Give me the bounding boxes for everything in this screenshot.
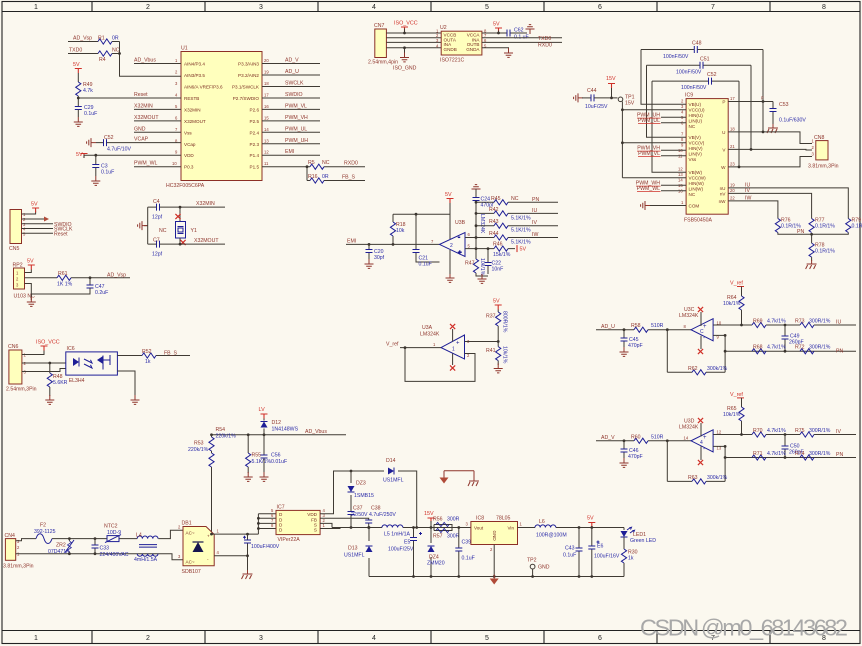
svg-text:3: 3: [178, 554, 181, 559]
svg-text:470pF: 470pF: [628, 454, 643, 460]
wire IC7 D pins bus: [258, 514, 276, 534]
svg-text:Green LED: Green LED: [630, 538, 656, 544]
svg-text:LIN(W): LIN(W): [689, 187, 704, 192]
svg-text:L6: L6: [539, 519, 545, 525]
svg-text:U3A: U3A: [422, 325, 433, 331]
svg-text:5.1K/1%: 5.1K/1%: [511, 228, 531, 234]
svg-text:ISO7221C: ISO7221C: [440, 58, 464, 64]
svg-text:AD_V: AD_V: [601, 435, 615, 441]
svg-text:FB_S: FB_S: [164, 351, 178, 357]
capacitor C48 bootstrap U: [641, 50, 763, 132]
svg-text:AD_Vbus: AD_Vbus: [305, 429, 327, 435]
svg-text:6: 6: [598, 635, 602, 642]
svg-text:30pf: 30pf: [374, 255, 385, 261]
svg-text:0.1uF/630V: 0.1uF/630V: [779, 118, 806, 124]
wire U1 pin14 PWM_UL: [262, 131, 320, 133]
svg-text:VCC(V): VCC(V): [689, 141, 705, 146]
svg-text:2.54mm,3Pin: 2.54mm,3Pin: [6, 387, 37, 393]
svg-text:12pf: 12pf: [152, 252, 163, 258]
svg-text:R57: R57: [433, 534, 443, 540]
op-amp U3B: [440, 233, 466, 257]
svg-text:4: 4: [372, 635, 376, 642]
svg-text:SWDIO: SWDIO: [285, 92, 303, 98]
electrolytic E5: [413, 528, 415, 577]
svg-text:7: 7: [681, 132, 684, 137]
svg-text:4.7k/1%: 4.7k/1%: [767, 319, 786, 325]
capacitor C51 bootstrap V: [647, 65, 752, 149]
svg-text:Y1: Y1: [191, 228, 197, 234]
svg-text:6: 6: [468, 232, 471, 237]
wire U2 pin7 TXD0: [482, 37, 562, 39]
svg-text:10k/1%: 10k/1%: [723, 301, 741, 307]
svg-text:-: -: [703, 336, 705, 342]
svg-text:5V: 5V: [445, 192, 452, 198]
svg-text:+: +: [703, 435, 707, 441]
svg-text:0.1R: 0.1R: [852, 224, 862, 230]
ground below C46: [620, 458, 629, 467]
svg-text:GNDA: GNDA: [466, 47, 480, 52]
svg-text:U1: U1: [181, 46, 188, 52]
resistor R63: [692, 479, 706, 484]
power ISO_VCC at CN7: [401, 27, 408, 32]
capacitor C20: [368, 244, 370, 260]
svg-text:+: +: [207, 534, 210, 539]
svg-text:AD_V: AD_V: [285, 58, 299, 64]
svg-text:R60: R60: [631, 434, 641, 440]
svg-text:R61: R61: [58, 271, 68, 277]
inductor L6: [535, 525, 556, 528]
svg-text:11: 11: [264, 161, 269, 166]
connector CN8: [816, 141, 828, 160]
resistor R73: [800, 322, 814, 327]
wire crystal left vertical: [144, 207, 148, 244]
svg-text:VDD: VDD: [184, 153, 194, 158]
svg-text:9: 9: [175, 150, 178, 155]
svg-text:US1MFL: US1MFL: [344, 553, 365, 559]
svg-text:10uF/25V: 10uF/25V: [585, 104, 608, 110]
wire U2 pin8 to C62: [482, 32, 527, 34]
svg-text:4: 4: [700, 440, 703, 446]
svg-text:R55: R55: [252, 453, 262, 459]
net AD_Vbus wire: [212, 434, 347, 436]
svg-text:AC~: AC~: [186, 531, 195, 536]
svg-text:1SMB15: 1SMB15: [354, 493, 374, 499]
svg-text:R41: R41: [486, 348, 496, 354]
resistor R72: [800, 349, 814, 354]
svg-text:5.1K/1%: 5.1K/1%: [252, 459, 272, 465]
capacitor C46: [623, 441, 625, 459]
resistor R76: [775, 219, 780, 233]
wire U3A pin3 to divider: [465, 341, 499, 343]
wire DC+ bus: [212, 533, 259, 535]
svg-text:+: +: [456, 341, 460, 347]
svg-text:P2.3: P2.3: [250, 142, 260, 147]
svg-text:C51: C51: [700, 56, 710, 62]
svg-text:AD_Vsp: AD_Vsp: [107, 272, 126, 278]
svg-text:7: 7: [175, 127, 178, 132]
capacitor C52 on VCap: [96, 142, 181, 144]
svg-text:IC7: IC7: [277, 504, 285, 510]
svg-text:C44: C44: [587, 88, 597, 94]
net IV line R43: [476, 225, 558, 227]
svg-text:X32MIN: X32MIN: [184, 107, 201, 112]
wire VDD to U1 pin9: [84, 155, 181, 164]
svg-text:W: W: [721, 165, 726, 170]
ground crystal sideways: [138, 221, 147, 230]
svg-text:Reset: Reset: [54, 231, 68, 237]
svg-text:U: U: [722, 130, 725, 135]
frame column ticks top: [92, 2, 770, 12]
red X marks on Y1: [175, 214, 180, 219]
resistor R79: [846, 219, 851, 233]
svg-text:5V: 5V: [73, 62, 80, 68]
svg-text:EL3H4: EL3H4: [69, 378, 85, 384]
wire crystal bottom X32MOUT: [148, 238, 225, 244]
frame bottom band line: [2, 630, 860, 632]
svg-text:nV: nV: [720, 191, 727, 196]
svg-text:NC: NC: [322, 160, 330, 166]
svg-text:NC: NC: [689, 192, 696, 197]
ground below R55: [244, 472, 253, 481]
svg-text:LM324K: LM324K: [679, 424, 699, 430]
svg-text:PWM_VL: PWM_VL: [285, 103, 307, 109]
svg-text:2: 2: [175, 70, 178, 75]
wire AD_Vsp: [68, 41, 120, 43]
svg-text:100uF/25V: 100uF/25V: [388, 547, 414, 553]
ground U2 GNDA: [504, 48, 513, 57]
svg-text:Vin: Vin: [507, 526, 514, 531]
power 5V for R49: [75, 69, 82, 74]
power 5V R37: [495, 305, 502, 310]
svg-text:R43: R43: [489, 219, 499, 225]
svg-text:3: 3: [175, 81, 178, 86]
svg-text:1: 1: [217, 529, 220, 534]
svg-text:AIN6/A VREF/P3.6: AIN6/A VREF/P3.6: [184, 85, 223, 90]
capacitor C50: [784, 435, 786, 458]
svg-text:17: 17: [730, 96, 735, 101]
svg-text:ZMM20: ZMM20: [427, 561, 445, 567]
svg-text:1: 1: [452, 347, 455, 353]
capacitor C38 FB: [320, 518, 369, 527]
wire U1 pin20 AD_V: [262, 63, 320, 65]
capacitor C39: [458, 528, 460, 577]
ground below C29: [74, 117, 83, 126]
svg-text:3: 3: [17, 539, 20, 544]
svg-text:PN: PN: [836, 349, 843, 355]
svg-text:3: 3: [259, 4, 263, 11]
svg-text:R16: R16: [308, 174, 318, 180]
svg-text:19: 19: [730, 182, 735, 187]
capacitor C21: [416, 214, 440, 262]
svg-text:PN: PN: [836, 452, 843, 458]
svg-text:P1.5: P1.5: [250, 165, 260, 170]
svg-text:S: S: [314, 528, 317, 533]
svg-text:-: -: [456, 353, 458, 359]
svg-text:14: 14: [264, 127, 269, 132]
svg-text:Vss: Vss: [689, 157, 697, 162]
ground below R41: [494, 364, 503, 373]
svg-text:R45: R45: [491, 196, 501, 202]
svg-text:R62: R62: [688, 366, 698, 372]
resistor R49: [77, 73, 79, 82]
svg-text:IW: IW: [532, 232, 538, 238]
svg-text:3: 3: [812, 152, 815, 157]
svg-text:E6: E6: [597, 544, 603, 550]
resistor R69: [752, 322, 766, 327]
wire nV to R77: [728, 193, 811, 218]
svg-text:COM: COM: [689, 204, 700, 209]
zener DZ4: [430, 528, 432, 577]
wire CN7 pin1: [386, 29, 441, 34]
wire U3C output line IU: [713, 324, 856, 326]
svg-text:R73: R73: [795, 319, 805, 325]
svg-text:X32MIN: X32MIN: [196, 201, 215, 207]
svg-text:18: 18: [730, 126, 735, 131]
wire CN7 pin4: [386, 48, 441, 54]
wire CN7 pin3: [386, 41, 441, 43]
ground pair bracket: [444, 471, 474, 477]
common mode choke L4: [137, 536, 158, 539]
svg-text:15V: 15V: [625, 100, 635, 106]
resistor R75: [800, 432, 814, 437]
capacitor C56: [263, 435, 265, 473]
svg-text:ISO_GND: ISO_GND: [393, 66, 417, 72]
crystal Y1: [176, 222, 186, 239]
red X marks U3A power pins: [452, 329, 454, 365]
svg-text:17: 17: [264, 93, 269, 98]
svg-text:100nF/50V: 100nF/50V: [681, 85, 707, 91]
svg-text:0R: 0R: [322, 174, 329, 180]
svg-text:0.2uF: 0.2uF: [95, 290, 108, 296]
svg-text:C52: C52: [104, 135, 114, 141]
svg-text:2: 2: [490, 547, 493, 552]
svg-text:10nF: 10nF: [492, 267, 504, 273]
wire U2 pin5 GNDA: [482, 48, 509, 50]
wire IC8 GND pin down: [493, 545, 495, 577]
svg-text:CSDN @m0_68143682: CSDN @m0_68143682: [640, 615, 848, 641]
thermistor NTC2: [107, 536, 119, 542]
optocoupler IC6: [66, 352, 118, 375]
svg-text:5: 5: [485, 635, 489, 642]
power 5V output: [588, 523, 595, 528]
svg-text:10D-9: 10D-9: [107, 530, 121, 536]
IPM IC9 FSB50450A: [686, 99, 728, 215]
svg-text:R53: R53: [194, 441, 204, 447]
svg-text:22: 22: [730, 195, 735, 200]
svg-text:X32MOUT: X32MOUT: [134, 115, 159, 121]
svg-text:C48: C48: [692, 41, 702, 47]
svg-text:2: 2: [146, 635, 150, 642]
svg-text:7: 7: [431, 239, 434, 244]
IC6 LED symbol: [73, 358, 79, 366]
svg-text:C39: C39: [462, 540, 472, 546]
svg-text:10k/1%: 10k/1%: [723, 412, 741, 418]
svg-text:12: 12: [717, 429, 722, 434]
wire IC6 out to R52: [117, 355, 190, 357]
capacitor C3: [92, 165, 99, 168]
svg-text:300R/1%: 300R/1%: [809, 428, 831, 434]
svg-text:4.7k/1%: 4.7k/1%: [767, 345, 786, 351]
svg-text:PWM_VL: PWM_VL: [638, 151, 660, 157]
svg-text:5.1K/1%: 5.1K/1%: [511, 215, 531, 221]
power 5V RP2: [28, 265, 35, 270]
svg-text:392-1125: 392-1125: [34, 529, 56, 535]
wire AC line top: [16, 530, 183, 541]
svg-text:VCAP: VCAP: [134, 137, 149, 143]
svg-text:HIN(W): HIN(W): [689, 181, 705, 186]
svg-text:C37: C37: [353, 506, 363, 512]
svg-text:R56: R56: [433, 517, 443, 523]
svg-text:5V: 5V: [493, 299, 500, 305]
fuse F2: [36, 534, 52, 544]
svg-text:100R@100M: 100R@100M: [536, 533, 567, 539]
svg-text:3: 3: [466, 522, 469, 527]
svg-text:PN: PN: [797, 229, 804, 235]
diode D14: [388, 468, 394, 475]
svg-text:Reset: Reset: [134, 92, 148, 98]
svg-text:300R: 300R: [447, 534, 460, 540]
resistor R61: [57, 275, 71, 280]
svg-text:-: -: [703, 447, 705, 453]
svg-text:10k/1%: 10k/1%: [502, 346, 508, 364]
svg-text:2: 2: [17, 545, 20, 550]
wire U3B pin5 R46: [465, 248, 515, 250]
svg-text:PWM_WL: PWM_WL: [134, 161, 157, 167]
svg-text:AIN3/P3.5: AIN3/P3.5: [184, 73, 205, 78]
svg-text:220k/1%: 220k/1%: [216, 434, 237, 440]
svg-text:P2.7/SWDIO: P2.7/SWDIO: [233, 96, 260, 101]
ground right of C62: [526, 25, 535, 34]
wire IC8 out to L6: [518, 527, 625, 529]
zener DZ3: [350, 471, 352, 512]
svg-text:16: 16: [264, 104, 269, 109]
svg-text:07D471K: 07D471K: [48, 549, 70, 555]
resistor R37: [497, 310, 499, 313]
svg-text:470pF: 470pF: [628, 343, 643, 349]
wire divider to DC bus: [211, 467, 213, 534]
wire CN5 pin1 to 5V: [22, 211, 36, 215]
svg-text:P3.3/AIN3: P3.3/AIN3: [238, 62, 259, 67]
ground column top of C24: [472, 185, 481, 194]
resistor R70: [752, 432, 766, 437]
ground below R78: [806, 260, 817, 269]
ground below R48: [45, 395, 54, 404]
wire PWM_WL to U1 pin10: [134, 166, 181, 168]
svg-text:5.6KR: 5.6KR: [53, 380, 68, 386]
wire crystal top X32MIN: [148, 207, 225, 221]
svg-text:CN8: CN8: [814, 135, 824, 141]
op-amp U3A: [441, 335, 465, 359]
svg-text:15V: 15V: [606, 76, 616, 82]
svg-text:20: 20: [264, 58, 269, 63]
svg-text:8: 8: [822, 4, 826, 11]
red X marks U3C power pins: [700, 312, 702, 349]
svg-text:R4: R4: [99, 57, 106, 63]
svg-text:LM324K: LM324K: [479, 214, 485, 234]
svg-text:5: 5: [468, 243, 471, 248]
svg-text:NC: NC: [689, 124, 696, 129]
wire U1 pin17 SWDIO: [262, 97, 320, 99]
svg-text:5V: 5V: [76, 152, 83, 158]
wire 15V to VCC(U): [622, 102, 686, 110]
svg-text:VCap: VCap: [184, 142, 196, 147]
svg-text:P2.4: P2.4: [250, 130, 260, 135]
electrolytic E6: [591, 528, 593, 577]
svg-text:0.1uF: 0.1uF: [462, 556, 475, 562]
svg-text:HIN(U): HIN(U): [689, 113, 704, 118]
inductor L5: [382, 525, 403, 528]
wire CN5 pin4 SWCLK: [22, 228, 54, 230]
svg-text:R54: R54: [216, 427, 226, 433]
net PWM_WH: [661, 184, 686, 186]
svg-text:4.7k: 4.7k: [83, 88, 93, 94]
svg-text:HIN(V): HIN(V): [689, 146, 704, 151]
resistor R62: [692, 370, 706, 375]
junction DB1 minus: [246, 554, 249, 557]
capacitor C62: [507, 30, 510, 37]
net PWM_WL: [661, 190, 686, 192]
svg-text:VCC(U): VCC(U): [689, 108, 706, 113]
svg-text:P: P: [761, 96, 764, 101]
bridge rectifier DB1: [183, 527, 214, 566]
svg-text:R1: R1: [98, 36, 105, 42]
svg-text:R74: R74: [795, 451, 805, 457]
svg-text:C38: C38: [371, 506, 381, 512]
frame column ticks bottom: [92, 631, 770, 644]
wire X32MIN to U1 pin5: [134, 108, 181, 110]
ground ISO_GND: [400, 53, 409, 62]
net EMI wire: [346, 243, 440, 245]
svg-text:GND: GND: [492, 531, 497, 542]
svg-text:14: 14: [684, 435, 689, 440]
ground below RP2: [27, 297, 36, 306]
svg-text:1N4148WS: 1N4148WS: [272, 427, 299, 433]
svg-text:DZ3: DZ3: [356, 481, 366, 487]
svg-text:AD_Vsp: AD_Vsp: [73, 36, 92, 42]
svg-text:D12: D12: [272, 420, 282, 426]
svg-text:nW: nW: [719, 199, 727, 204]
svg-text:P1.4: P1.4: [250, 153, 260, 158]
svg-text:LM324K: LM324K: [420, 332, 440, 338]
svg-text:300R/1%: 300R/1%: [809, 451, 831, 457]
svg-text:PN: PN: [532, 197, 539, 203]
power 5V at U2: [495, 28, 502, 33]
power 5V U3B: [447, 199, 454, 204]
op-amp U3C: [691, 319, 713, 341]
capacitor C29: [75, 107, 82, 110]
svg-text:AIN4/P3.4: AIN4/P3.4: [184, 62, 205, 67]
svg-text:NC: NC: [511, 196, 519, 202]
svg-text:RESTB: RESTB: [184, 96, 199, 101]
svg-text:C52: C52: [707, 72, 717, 78]
svg-text:4: 4: [175, 93, 178, 98]
wire U1 pin18 SWCLK: [262, 86, 320, 88]
wire COM pin to ground: [648, 205, 686, 207]
resistor R52: [142, 353, 156, 358]
svg-text:LM324K: LM324K: [679, 313, 699, 319]
MCU U1 HC32F005C6PA: [181, 52, 262, 181]
svg-text:VCC(W): VCC(W): [689, 176, 707, 181]
svg-text:R44: R44: [489, 231, 499, 237]
svg-text:2: 2: [812, 145, 815, 150]
resistor R1: [98, 39, 112, 44]
resistor R47: [475, 249, 477, 259]
svg-text:1k: 1k: [628, 556, 634, 562]
svg-text:P3.1/SWCLK: P3.1/SWCLK: [232, 85, 260, 90]
svg-text:IW: IW: [745, 196, 751, 202]
resistor R74: [800, 455, 814, 460]
wire U1 pin13 PWM_UH: [262, 143, 320, 145]
